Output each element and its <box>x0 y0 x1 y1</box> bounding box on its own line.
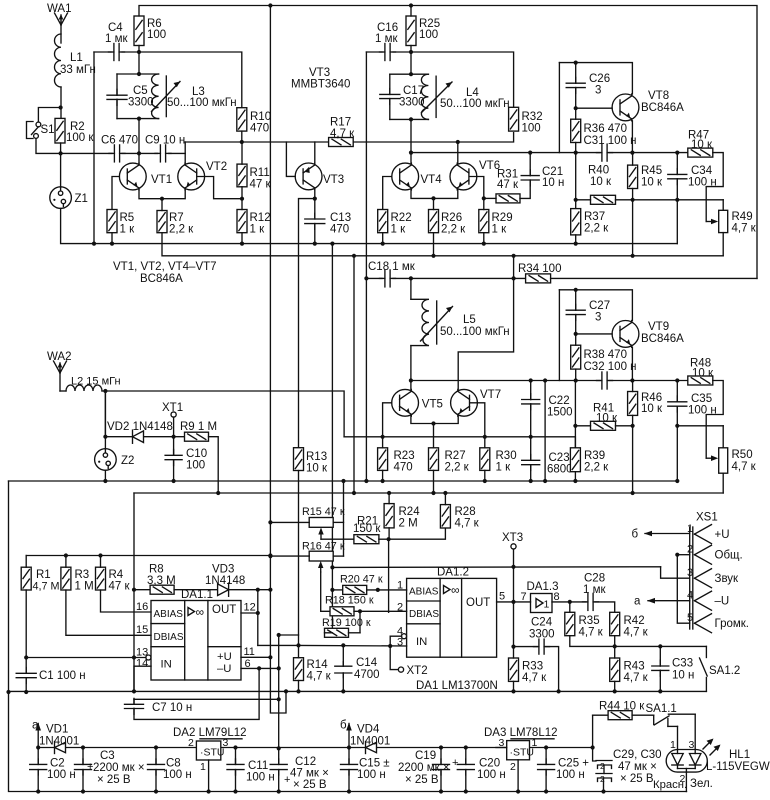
wire L1 to R2 node <box>60 87 62 118</box>
node C3 railB <box>81 789 85 793</box>
wire emitter row right <box>632 152 687 154</box>
label C20 value <box>477 769 506 781</box>
node pin2 common <box>675 553 679 557</box>
svg-text:× 25 В: × 25 В <box>293 779 327 791</box>
wire R38 bottom <box>575 369 577 380</box>
svg-text:47 к: 47 к <box>250 179 272 191</box>
svg-text:7: 7 <box>521 591 527 603</box>
wire R49 bottom to rail2 <box>722 233 724 256</box>
label C17 <box>403 85 424 97</box>
svg-text:DA1.1: DA1.1 <box>181 589 213 601</box>
wire VT5 base <box>383 403 392 437</box>
wire R50 top <box>722 426 724 448</box>
label R12 <box>250 212 271 224</box>
node R42/R43 <box>613 644 617 648</box>
node R10/R11 <box>240 140 244 144</box>
node R46/R41 <box>631 424 635 428</box>
label XT3 <box>502 532 523 544</box>
label C25 <box>558 758 589 770</box>
svg-text:–U: –U <box>217 663 231 675</box>
label R17 value <box>330 128 355 140</box>
label VT1 <box>151 174 172 186</box>
node C26 top <box>574 61 578 65</box>
label R23 <box>394 450 415 462</box>
IC DA1.3 <box>531 594 553 613</box>
wire C24 row <box>513 602 515 647</box>
svg-text:47 мк ×: 47 мк × <box>290 768 329 780</box>
label C10 value <box>186 460 205 472</box>
svg-text:R40: R40 <box>588 165 609 177</box>
svg-text:S1: S1 <box>41 124 55 136</box>
label C10 <box>186 448 207 460</box>
label R3 <box>75 569 90 581</box>
wire R36 leads <box>575 108 577 119</box>
label C9 <box>145 135 185 147</box>
label C14 <box>356 657 378 669</box>
wire R47 to R49 wiper <box>706 153 723 222</box>
wire C22 top lead <box>530 381 532 400</box>
label C7 <box>152 702 192 714</box>
node C14 top <box>341 643 345 647</box>
svg-text:OUT: OUT <box>212 604 236 616</box>
wire common row under DA1 <box>9 690 707 692</box>
label VD4 type <box>350 736 390 748</box>
capacitor C28 <box>583 593 599 610</box>
node R38 bottom row <box>574 378 578 382</box>
node C19 top <box>439 745 443 749</box>
wire C31 to emitter <box>609 152 632 154</box>
label C23 value <box>547 464 573 476</box>
node VT5 collector <box>409 378 413 382</box>
label R27 <box>445 450 466 462</box>
svg-text:3: 3 <box>689 739 695 751</box>
wire VT9 base row <box>576 333 612 335</box>
wire R11 leads <box>241 142 243 164</box>
label HL1 type <box>706 761 770 773</box>
svg-text:C34: C34 <box>691 165 713 177</box>
label Zel <box>690 778 713 790</box>
label DA1.1 IN <box>161 659 172 671</box>
resistor R40 <box>591 195 616 204</box>
label C18 <box>368 261 416 273</box>
label R25 value <box>419 29 438 41</box>
node emitters R27 <box>431 421 435 425</box>
label DA2 pin1 <box>200 761 206 773</box>
node VT6 collector top <box>456 140 460 144</box>
node C1 bottom <box>24 690 28 694</box>
label C24 <box>531 617 553 629</box>
wire C15 bottom <box>348 770 350 792</box>
node R14 bottom <box>296 689 300 693</box>
svg-text:C14: C14 <box>356 657 378 669</box>
wire rail A <box>38 747 196 749</box>
wire C16 row <box>366 51 382 53</box>
node C20 top <box>464 745 468 749</box>
node VT3 collector branch <box>313 197 317 201</box>
label VD1 type <box>39 736 79 748</box>
node R45/R40 <box>631 198 635 202</box>
label DA1.2 DBIAS <box>409 609 439 620</box>
svg-text:+: + <box>87 761 93 773</box>
wire R30 bottom <box>484 470 486 481</box>
label L1 value 33 mH <box>60 64 96 76</box>
resistor R38 <box>571 345 581 369</box>
svg-text:1: 1 <box>670 739 676 751</box>
node C33 bottom <box>658 689 662 693</box>
wire VT4 emitter <box>411 190 434 199</box>
wire tank2 right to R32 <box>411 52 514 107</box>
connector XS1 pin 2 Общ. <box>687 544 743 565</box>
label R29 <box>492 212 513 224</box>
inductor L5 variable <box>411 299 453 345</box>
capacitor C19 <box>433 759 450 775</box>
polarity C12 <box>284 774 290 786</box>
wire R38/R39 chain <box>574 381 576 448</box>
capacitor C13 <box>305 213 325 229</box>
svg-text:2,2 к: 2,2 к <box>169 224 194 236</box>
node R12 rail1 <box>240 242 244 246</box>
earphone Z2 <box>95 449 117 471</box>
svg-text:2: 2 <box>687 544 693 556</box>
node pots riser rail3 <box>341 479 345 483</box>
label R29 value <box>492 224 508 236</box>
capacitor C24 <box>534 639 550 654</box>
label R23 value <box>394 462 413 474</box>
svg-text:1 к: 1 к <box>496 462 512 474</box>
label R45 value <box>641 177 663 189</box>
wire VT9 box top <box>559 290 632 321</box>
svg-text:3: 3 <box>595 312 601 324</box>
underline DA2 label <box>200 738 242 740</box>
svg-text:+: + <box>284 774 290 786</box>
svg-text:47 к: 47 к <box>109 581 131 593</box>
wire VT1 base to R5 <box>112 177 119 210</box>
svg-text:10 н: 10 н <box>542 177 564 189</box>
connector XS1 pin 3 Звук <box>687 567 739 588</box>
inductor L1 <box>55 34 61 87</box>
DA1.2 amp symbol <box>444 583 460 597</box>
label DA2 pin3 <box>223 737 229 749</box>
inductor L3 variable <box>152 74 181 119</box>
resistor R14 <box>294 658 304 681</box>
capacitor C3 <box>75 759 92 775</box>
label C27 value <box>595 312 601 324</box>
wire tank1 bottom <box>117 118 159 120</box>
label C26 <box>589 73 610 85</box>
node XT1 bottom <box>172 435 176 439</box>
label R39 <box>584 450 605 462</box>
wire rail4 <box>134 492 723 494</box>
svg-text:1 к: 1 к <box>250 224 266 236</box>
DA1.2 pin4 circle <box>402 634 407 639</box>
node emitters R26 <box>431 196 435 200</box>
node rail2 x513 <box>511 254 515 258</box>
label XT2 <box>407 665 428 677</box>
svg-text:100 н: 100 н <box>556 769 585 781</box>
wire R14 top lead <box>298 645 300 657</box>
node C22 base row <box>529 435 533 439</box>
label R26 <box>441 212 462 224</box>
label R30 value <box>496 462 512 474</box>
svg-text:10 к: 10 к <box>596 413 618 425</box>
svg-text:10 к: 10 к <box>641 177 663 189</box>
node pin14 C7 <box>132 689 136 693</box>
label VD1 <box>46 724 68 736</box>
svg-text:MMBT3640: MMBT3640 <box>291 79 350 91</box>
svg-text:R30: R30 <box>496 450 517 462</box>
node x354 rail4 <box>352 491 356 495</box>
svg-text:C27: C27 <box>589 300 610 312</box>
wire row to C31 <box>559 152 600 154</box>
wire VT6 collector <box>457 142 459 163</box>
node x332 sound <box>330 565 334 569</box>
svg-text:L5: L5 <box>463 314 476 326</box>
node rail2 drop VT7 <box>511 276 515 280</box>
label VT7 <box>480 389 501 401</box>
svg-text:R15 47 к: R15 47 к <box>302 506 345 518</box>
wire C32 to emitter <box>609 380 632 382</box>
svg-text:470: 470 <box>250 123 269 135</box>
label VT4 <box>421 174 443 186</box>
svg-text:ABIAS: ABIAS <box>409 586 439 597</box>
capacitor C22 <box>522 394 540 410</box>
label R3 value <box>75 581 94 593</box>
label C20 <box>479 758 500 770</box>
capacitor C35 <box>668 396 687 412</box>
wire C27 bottom lead <box>575 315 577 334</box>
node R22 rail1 <box>381 242 385 246</box>
IC DA3 <box>507 741 534 760</box>
transistor VT2 <box>178 163 205 190</box>
svg-text:+U: +U <box>217 651 232 663</box>
svg-text:2200 мк ×: 2200 мк × <box>398 762 450 774</box>
svg-text:R44 10 к: R44 10 к <box>599 701 645 713</box>
node C33 top <box>658 644 662 648</box>
svg-text:R37: R37 <box>584 211 605 223</box>
label R4 <box>109 569 124 581</box>
wire pin11 row <box>241 656 270 658</box>
wire R33 top <box>513 647 515 658</box>
node VT8 base <box>574 106 578 110</box>
wire C18 row to R34 <box>411 277 526 279</box>
wire C23 top lead <box>530 437 532 461</box>
label R13 <box>306 451 327 463</box>
node x332 rail1 <box>330 242 334 246</box>
svg-text:R4: R4 <box>109 569 124 581</box>
node x366 rail3 <box>364 479 368 483</box>
node R40 left <box>574 198 578 202</box>
label DA1.3 pin8 <box>554 591 560 603</box>
label R47 value <box>691 139 713 151</box>
svg-text:VD3: VD3 <box>212 564 234 576</box>
label R1 <box>36 569 51 581</box>
wiper arrow R49 <box>706 219 718 225</box>
node VT9 base <box>574 332 578 336</box>
node R37 rail1 <box>574 242 578 246</box>
wire VT2 collector to R10 node <box>185 141 242 143</box>
polarity C3 <box>87 761 93 773</box>
resistor R19 <box>325 628 349 637</box>
resistor R4 <box>96 567 106 590</box>
wire x332 sound column <box>331 244 333 633</box>
svg-text:3: 3 <box>223 737 229 749</box>
resistor R10 <box>237 108 247 131</box>
wire R15 left <box>270 521 309 523</box>
label R10 value <box>250 123 269 135</box>
node C24 R33 <box>511 645 515 649</box>
node riser R13 row <box>277 633 281 637</box>
label R33 <box>522 661 543 673</box>
wire R8 row left <box>134 589 150 591</box>
svg-text:× 25 В: × 25 В <box>405 774 439 786</box>
label DA1.1 ABIAS <box>154 609 184 620</box>
wire VT5 collector row <box>411 290 560 381</box>
node C30 railB <box>601 789 605 793</box>
svg-text:47 мк ×: 47 мк × <box>618 761 657 773</box>
wire R45 top <box>632 153 634 166</box>
label DA1.3 <box>527 581 559 593</box>
antenna WA1 <box>55 13 68 43</box>
wire R2 leads <box>60 143 62 153</box>
wire R27 top <box>433 424 435 448</box>
label R37 <box>584 211 605 223</box>
capacitor C6 <box>109 145 125 162</box>
wire C21 top <box>529 153 531 176</box>
wire C30 bottom <box>603 778 605 792</box>
wire C18 left <box>366 277 382 279</box>
node R8 left <box>132 588 136 592</box>
capacitor C25 <box>538 759 555 775</box>
resistor R45 <box>628 165 638 188</box>
label R20 <box>340 574 383 586</box>
wire R19 riser <box>359 611 361 633</box>
wire R10 bottom <box>241 131 243 142</box>
node VT7 base row <box>483 435 487 439</box>
wire tank2 feed <box>410 52 412 74</box>
svg-text:ABIAS: ABIAS <box>154 609 184 620</box>
wire VT3 collector <box>314 190 316 217</box>
resistor R2 <box>55 118 65 143</box>
wire R45 bottom <box>632 189 634 200</box>
label R35 value <box>579 627 604 639</box>
wire pin7 <box>514 601 531 603</box>
label C27 <box>589 300 610 312</box>
node VD1 C2 <box>36 745 40 749</box>
svg-text:BC846A: BC846A <box>641 102 684 114</box>
node C27 top <box>574 288 578 292</box>
wire node to R28 <box>389 528 446 539</box>
svg-text:2 М: 2 М <box>399 518 418 530</box>
svg-text:R36 470: R36 470 <box>584 123 627 135</box>
wire row to C32 <box>559 380 600 382</box>
wire node to S1 top <box>38 108 60 122</box>
label R10 <box>250 111 271 123</box>
transistor VT6 <box>450 163 477 190</box>
node C10 rail3 <box>172 479 176 483</box>
wire tank1 left wall lower <box>116 99 118 118</box>
label DA1.2 pin1 <box>397 580 403 592</box>
wire S1 to R2 bottom wire <box>36 138 61 153</box>
svg-text:1 М: 1 М <box>75 581 94 593</box>
label DA3 <box>484 727 558 739</box>
svg-text:VT3: VT3 <box>309 67 330 79</box>
label R32 value <box>522 123 541 135</box>
svg-text:L2 15 мГн: L2 15 мГн <box>71 376 121 388</box>
svg-text:Общ.: Общ. <box>715 550 743 562</box>
node R6 bottom <box>137 50 141 54</box>
wire top rail <box>139 6 757 279</box>
label R42 value <box>624 627 649 639</box>
transistor VT5 <box>392 389 419 416</box>
label DA1.2 pin5 <box>499 591 505 603</box>
resistor R37 <box>571 209 581 235</box>
resistor R27 <box>429 448 439 471</box>
underline DA3 label <box>511 738 554 740</box>
svg-text:R9 1 M: R9 1 M <box>180 421 217 433</box>
wire sound row <box>332 566 660 569</box>
label VT9 <box>648 321 669 333</box>
label R46 <box>641 392 662 404</box>
wire R16 right <box>333 555 343 557</box>
wire R50 bottom to rail4 <box>722 473 724 493</box>
wire R3 top <box>65 556 67 568</box>
resistor R23 <box>378 448 388 471</box>
resistor R34 <box>526 274 551 283</box>
label C14 value <box>354 669 380 681</box>
svg-text:б: б <box>340 720 347 732</box>
label C29 value2 <box>620 773 654 785</box>
wire R9 to rail4 <box>209 437 219 493</box>
svg-text:C24: C24 <box>531 617 553 629</box>
wire C12 bottom <box>278 770 280 792</box>
label C22 value <box>547 407 573 419</box>
svg-text:DA1.2: DA1.2 <box>437 567 469 579</box>
inductor L2 <box>66 385 102 391</box>
wire XT3 column <box>513 549 515 602</box>
wire VT2 emitter <box>162 190 185 199</box>
IC DA1.1 outline <box>151 601 241 681</box>
svg-text:C28: C28 <box>584 573 605 585</box>
wire C8 leads <box>155 748 157 765</box>
node C34 top <box>675 151 679 155</box>
svg-text:50...100 мкГн: 50...100 мкГн <box>440 98 510 110</box>
svg-text:33 мГн: 33 мГн <box>60 64 96 76</box>
svg-text:6800: 6800 <box>547 464 573 476</box>
wire R33 bottom <box>513 681 515 691</box>
terminal XT1 <box>171 412 176 417</box>
svg-text:3: 3 <box>687 567 693 579</box>
svg-text:C13: C13 <box>330 212 351 224</box>
wire rail1 right end up <box>676 200 678 244</box>
svg-text:WA1: WA1 <box>47 3 72 15</box>
wire VT1 emitter <box>139 190 162 199</box>
wire R36 chain down <box>575 153 577 209</box>
capacitor C34 <box>668 169 687 185</box>
wire rail A right <box>221 747 593 749</box>
node VD2 left <box>103 435 107 439</box>
label R46 value <box>641 403 663 415</box>
svg-text:11: 11 <box>244 646 255 658</box>
label C16 <box>377 22 398 34</box>
wire C4 row <box>94 51 111 53</box>
svg-text:4,7 к: 4,7 к <box>732 461 757 473</box>
label R17 <box>330 117 351 129</box>
wire L2 to base row <box>102 391 344 437</box>
label HL1 pin1 <box>670 739 676 751</box>
svg-text:1: 1 <box>544 599 550 611</box>
wire C23 bottom <box>530 465 532 481</box>
label C26 value <box>595 85 601 97</box>
